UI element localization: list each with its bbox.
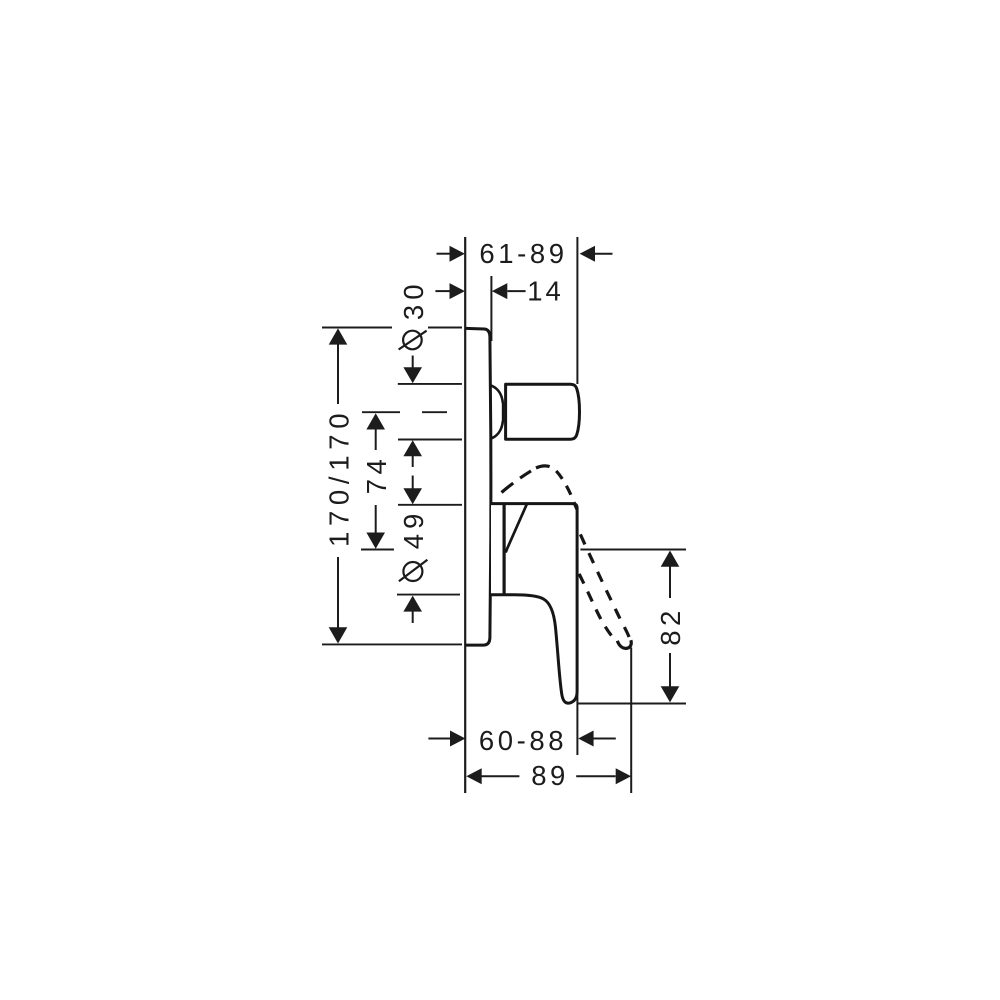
node arrow 61-89 left head [450,246,465,262]
node tick 82 top [580,549,686,551]
knob neck top fillet [491,386,503,404]
node centerline knob axis [362,411,400,413]
node arrow 170 up [329,328,348,344]
wire dim 60-88 right tail [594,738,616,740]
node arrow 170 down [329,627,348,643]
wire dashed lever outer diagonal [578,528,631,643]
node tick 74 bottom [361,549,394,551]
wire dim 30-49 stem middle [412,456,414,467]
wire dim 170 stem upper [337,344,339,404]
svg-text:170/170: 170/170 [324,408,355,547]
knob neck bottom fillet [491,421,503,439]
node tick collar bottom [397,594,460,596]
wire wall extension line [464,237,466,793]
node arrow 74 up [366,413,385,429]
node diameter symbol 30 [403,331,422,350]
lever back diagonal edge [506,504,527,552]
node tick collar top [398,504,462,506]
wire dim 61-89 left tail [437,253,451,255]
wire dim 170 stem lower [337,557,339,628]
node diameter symbol 49 [403,562,422,581]
wire dim 49 stem below arrow [412,611,414,623]
wire dim 82 stem lower [669,653,671,687]
node arrow 61-89 right head [580,246,595,262]
node arrow 49 up [403,596,422,612]
svg-text:89: 89 [531,760,569,791]
node arrow 82 down [661,686,680,702]
node tick bottom 170 [322,643,462,645]
svg-text:14: 14 [527,276,564,307]
wire dim 74 stem lower [375,505,377,534]
wire dashed lever inner diagonal [578,571,617,642]
node tick 82 bottom [578,703,686,705]
node arrow 82 up [661,551,680,567]
svg-text:60-88: 60-88 [479,725,567,756]
wire knob-face extension line top [576,237,578,384]
node arrow 30 up [403,440,422,456]
wire dashed lever apex corner [536,466,577,510]
wire dim 74 stem upper [375,428,377,450]
node arrow 74 down [366,533,385,549]
wire lever-face extension line bottom [576,694,578,755]
wire dim 89 right tail [576,775,615,777]
node arrow 49 down [403,488,422,504]
knob body [506,384,580,439]
wire dim 14 left tail [435,290,450,292]
node tick top 170 [322,327,392,329]
wire dim 82 stem upper [669,566,671,598]
lever handle body [491,504,577,704]
node arrow 14 left head [450,283,465,299]
escutcheon plate [466,328,491,645]
node tick knob top [398,383,462,385]
node arrow 14 right head [492,283,507,299]
lever mounting stem [503,505,506,595]
wire dashed-tip extension line [630,648,632,794]
wire dim 30 stem above arrow [412,356,414,369]
wire dashed lever tip cap [617,640,631,648]
node arrow 60-88 left head [450,731,465,747]
wire dim 14 right tail [508,290,526,292]
wire dim 60-88 left tail [428,738,450,740]
node arrow 30 down [403,367,422,383]
svg-text:74: 74 [361,455,392,495]
node arrow 89 left head [466,768,481,784]
wire dim 89 left tail [481,775,519,777]
svg-text:30: 30 [398,280,429,321]
node tick knob bottom [398,439,462,441]
svg-text:49: 49 [398,509,429,550]
wire plate-face extension line [490,276,492,341]
knob neck waist [502,402,505,422]
wire dashed lever upper edge rising [502,468,537,493]
node arrow 60-88 right head [578,731,593,747]
node arrow 89 right head [616,768,631,784]
svg-text:82: 82 [655,606,686,646]
wire dim 61-89 right tail [595,253,613,255]
svg-text:61-89: 61-89 [479,238,567,269]
